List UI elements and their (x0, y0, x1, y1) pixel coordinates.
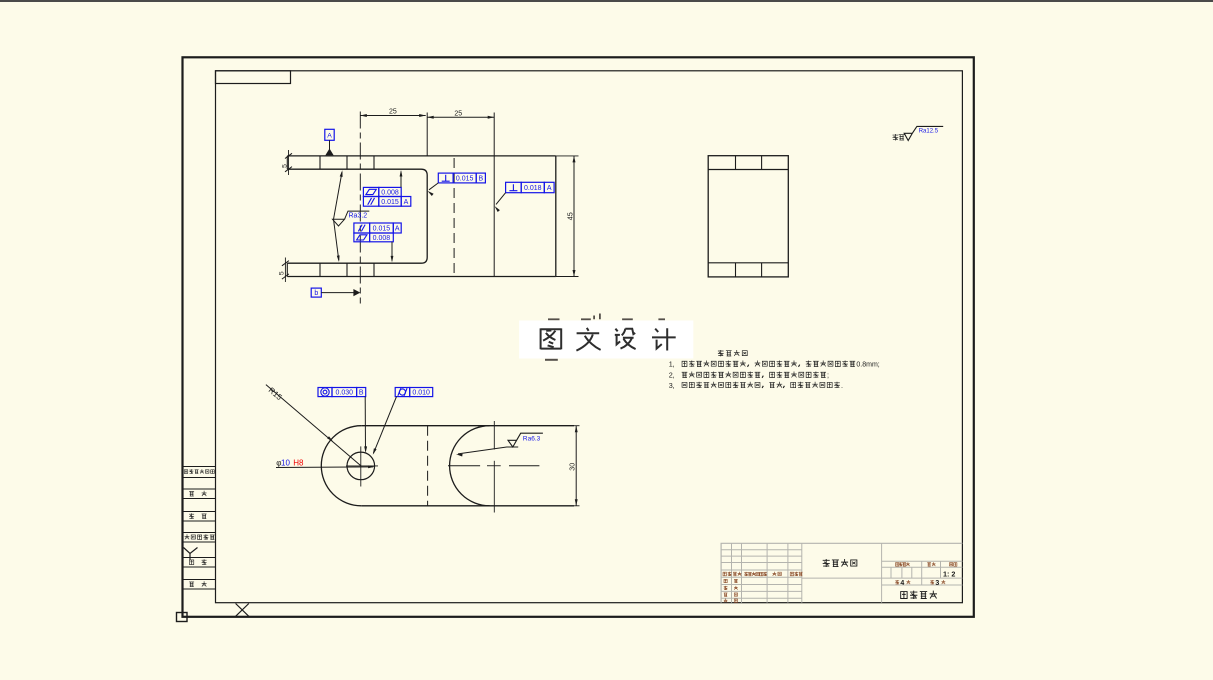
svg-text:A: A (327, 133, 332, 140)
leader to hole (364, 397, 366, 452)
dimension 45 (right side) (556, 155, 579, 157)
svg-text:0.018: 0.018 (524, 185, 542, 192)
svg-text:30: 30 (567, 463, 576, 471)
plan view: lifting hole (347, 452, 375, 480)
section view: top flange inner line with rounded web corner (287, 169, 427, 263)
top flange cell dividers (319, 156, 321, 169)
fold mark Y (184, 548, 198, 560)
section view: right edge (555, 156, 557, 277)
left strip label: check (189, 513, 206, 519)
tolerance frame: perpendicularity 0.015 B (438, 173, 485, 183)
svg-text:4: 4 (900, 580, 904, 587)
svg-text:0.015: 0.015 (373, 226, 391, 233)
svg-text:Ra12.5: Ra12.5 (919, 129, 939, 135)
section view: left end ticks (286, 156, 288, 169)
svg-text:A: A (395, 226, 400, 233)
svg-text:3: 3 (935, 580, 939, 587)
svg-text:B: B (478, 176, 483, 183)
svg-text:;: ; (827, 371, 829, 380)
part name: forged lifting lug (900, 591, 937, 599)
svg-text:0.008: 0.008 (373, 235, 391, 242)
outer drawing border (183, 57, 974, 617)
section view: outline bottom edge (287, 276, 556, 278)
dimension 30 (574, 425, 580, 427)
svg-text:25: 25 (389, 109, 397, 116)
svg-text:A: A (547, 185, 552, 192)
svg-text:B: B (359, 390, 364, 397)
fold mark X (236, 604, 249, 617)
tolerance frame: concentricity 0.030 B (318, 388, 366, 397)
svg-text:b: b (314, 290, 318, 297)
dashed cavity centerline (453, 158, 455, 276)
leader to hole edge (374, 397, 397, 454)
right view: bottom flange dividers (735, 263, 737, 277)
mid extension line (426, 113, 428, 157)
svg-text:5: 5 (282, 164, 289, 168)
plan view: bottom edge (361, 505, 574, 507)
watermark char SHE (design) (615, 329, 636, 349)
left strip label: signature (189, 559, 206, 565)
svg-text:3‚: 3‚ (669, 381, 675, 390)
svg-text:25: 25 (454, 110, 462, 117)
left strip label: old drawing no. (185, 534, 215, 539)
left strip label: borrowed parts record (184, 469, 215, 474)
svg-text:45: 45 (565, 212, 574, 220)
svg-text:H8: H8 (293, 458, 304, 467)
svg-text:0.008: 0.008 (381, 190, 399, 197)
tolerance frame: cylindricity 0.010 (395, 388, 433, 397)
technical requirements title (718, 350, 747, 356)
vertical centerline (359, 112, 361, 304)
project name: graduation design (823, 559, 857, 567)
inner drawing frame (216, 71, 963, 603)
title block signature rows labels (724, 579, 728, 582)
svg-text:0.015: 0.015 (456, 176, 474, 183)
leader from upper frame to flange face (400, 172, 402, 188)
right view: outline (708, 156, 788, 277)
leader and label: hole dia 10 H8 (276, 466, 373, 469)
sheet 3 (930, 580, 934, 584)
title block header row labels (723, 572, 732, 576)
section view: outline top edge (287, 155, 556, 157)
right view: top flange dividers (735, 156, 737, 170)
plan view: rounded left end R15 (321, 426, 361, 506)
dimension 5 (top flange thickness) (288, 150, 290, 175)
svg-text:Ra3.2: Ra3.2 (349, 212, 368, 219)
plan view: right half-circle arc (450, 426, 490, 506)
top window edge (0, 0, 1213, 2)
svg-text:0.015: 0.015 (381, 199, 399, 206)
svg-text:Ra6.3: Ra6.3 (523, 436, 541, 443)
title block left grid horizontals (721, 550, 802, 598)
top-left reference rect (216, 71, 291, 84)
left revision strip rows (183, 467, 216, 590)
dimension 25 (right) (427, 116, 494, 118)
watermark char WEN (culture) (576, 328, 600, 351)
bottom flange cell dividers (319, 263, 321, 276)
tolerance frame: flatness 0.008 / parallelism 0.015 A (upper) (363, 187, 401, 196)
svg-text:5: 5 (278, 271, 285, 275)
watermark char JI (plan) (652, 328, 676, 350)
tolerance frame: perpendicularity 0.018 A (506, 182, 554, 192)
watermark glyph fragments above (548, 314, 665, 320)
surface finish Ra6.3 on arc (508, 433, 543, 447)
sheet 4 (895, 580, 899, 584)
svg-text:10: 10 (281, 458, 290, 467)
right view: flange lines (708, 169, 788, 171)
watermark char TU (picture) (541, 328, 562, 349)
leader to right extension line (496, 193, 506, 205)
svg-text:1: 2: 1: 2 (943, 570, 955, 579)
watermark white box (519, 321, 693, 359)
title block outer (721, 543, 962, 602)
watermark glyph fragment below (545, 359, 558, 361)
svg-text:0.030: 0.030 (336, 390, 354, 397)
title block right grid lines (802, 561, 963, 585)
stage mark / weight / scale labels (895, 562, 909, 566)
plan view: top edge (361, 425, 574, 427)
hole centerlines (346, 465, 378, 467)
left strip label: date (189, 581, 206, 586)
svg-text:1‚: 1‚ (669, 360, 675, 369)
svg-text:0.010: 0.010 (412, 390, 430, 397)
leader from lower frame to flange face (391, 242, 393, 261)
svg-text:A: A (404, 199, 409, 206)
surface finish Ra3.2 with leaders (333, 211, 370, 226)
corner registration square (177, 613, 188, 622)
right arc centerlines (493, 421, 495, 450)
svg-text:.: . (841, 381, 843, 390)
title block left grid verticals (732, 543, 882, 602)
dimension 25 (left) (360, 115, 425, 117)
leader R15 (266, 385, 361, 466)
tolerance frame: parallelism 0.015 A / flatness 0.008 (lower) (354, 223, 401, 233)
svg-text:2‚: 2‚ (669, 371, 675, 380)
mid break dashed line (427, 426, 429, 506)
left strip label: tracing (189, 491, 206, 496)
svg-text:0.8mm;: 0.8mm; (856, 362, 879, 369)
note: other surfaces Ra12.5 (893, 134, 905, 140)
datum A flag (325, 129, 334, 140)
leader to web edge (429, 183, 438, 190)
right extension line through view (493, 113, 495, 277)
dimension 5 (bottom flange thickness) (284, 258, 286, 283)
datum B flag (311, 288, 321, 297)
